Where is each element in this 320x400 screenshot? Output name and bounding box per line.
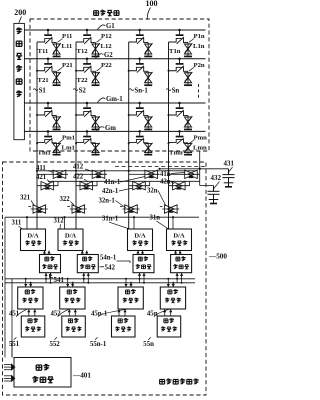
TFT Tm1 and LC element: [37, 130, 61, 155]
svg-text:55n-1: 55n-1: [90, 341, 107, 348]
TFT T11 and LC element: [37, 29, 61, 58]
data bus A: [5, 278, 195, 280]
node on control bus: [172, 216, 174, 218]
D/A converter 311: [21, 229, 46, 251]
svg-text:41n-1: 41n-1: [104, 179, 121, 186]
svg-text:451: 451: [9, 311, 20, 318]
svg-text:D/A: D/A: [134, 233, 146, 240]
svg-text:D/A: D/A: [27, 233, 39, 240]
wire junction: [36, 70, 38, 72]
source line label S2: [73, 87, 86, 94]
analog switch 411: [36, 170, 68, 179]
svg-text:Lmn: Lmn: [193, 145, 207, 152]
TFT T12 and LC element: [76, 29, 100, 58]
svg-text:541: 541: [54, 276, 65, 284]
svg-text:32n-1: 32n-1: [99, 197, 116, 204]
wire junction: [75, 70, 77, 72]
svg-text:542: 542: [105, 264, 116, 272]
left vertical to timing box: [11, 340, 13, 358]
timing controller 401: [14, 358, 71, 388]
label 200: [14, 8, 26, 23]
data latch 45n: [160, 287, 185, 309]
label 41n: [160, 171, 185, 178]
svg-text:45n: 45n: [147, 311, 158, 318]
svg-text:322: 322: [60, 196, 71, 203]
analog switch 421: [37, 181, 58, 190]
capacitor 432: [208, 186, 220, 204]
label 321: [20, 195, 34, 205]
wires latch2 to latch1: [119, 309, 125, 316]
svg-text:100: 100: [146, 0, 158, 8]
panel title 液晶面板: [94, 10, 119, 16]
data latch 452: [60, 287, 85, 309]
node on control bus: [133, 216, 135, 218]
svg-text:—401: —401: [72, 372, 91, 380]
switch controller box 2: [77, 255, 98, 273]
svg-text:P12: P12: [101, 33, 112, 40]
D/A converter 312: [58, 229, 83, 251]
TFT Tmn and LC element: [169, 130, 193, 155]
svg-text:T21: T21: [38, 77, 49, 84]
label 451: [9, 309, 27, 317]
svg-text:42n: 42n: [160, 179, 171, 186]
label 500: [208, 253, 227, 261]
svg-text:S1: S1: [39, 87, 47, 94]
label 45n: [147, 309, 169, 317]
gate line row 3: [24, 102, 205, 104]
data latch 451: [18, 287, 43, 309]
switch controller box 3: [133, 255, 154, 273]
node on control bus: [26, 216, 28, 218]
wires latch2 to latch1: [29, 309, 35, 316]
svg-text:431: 431: [224, 160, 235, 168]
precharge bus 1: [37, 170, 197, 172]
data latch 551: [21, 316, 45, 337]
svg-text:T22: T22: [77, 77, 89, 84]
wires bus to latch: [126, 279, 131, 287]
capacitor 431: [223, 169, 235, 187]
svg-text:Tmn: Tmn: [169, 150, 183, 157]
Vcom line: [199, 151, 201, 186]
analog switch 32n: [160, 205, 180, 213]
svg-text:321: 321: [20, 195, 31, 202]
svg-text:552: 552: [50, 341, 61, 348]
svg-text:41n: 41n: [160, 171, 171, 178]
wires bus to controller: [46, 273, 51, 283]
data latch 552: [62, 316, 86, 337]
wires controller to D/A: [82, 251, 87, 255]
TFT T21 and LC element: [37, 58, 61, 87]
TFT cell r1c3 and LC element: [129, 29, 153, 58]
wire junction: [128, 70, 130, 72]
svg-text:—500: —500: [208, 253, 227, 261]
wire junction: [128, 114, 130, 116]
svg-text:T12: T12: [77, 48, 89, 55]
wire junction: [168, 142, 170, 144]
svg-text:P22: P22: [101, 62, 112, 69]
wire junction: [168, 70, 170, 72]
label P12: [97, 33, 113, 42]
label 422: [73, 173, 88, 182]
wire junction: [75, 142, 77, 144]
svg-text:P11: P11: [62, 33, 72, 40]
label P22: [97, 62, 113, 71]
label 551: [9, 337, 20, 348]
source line label Sn: [166, 87, 179, 94]
label 452: [51, 309, 69, 317]
control line bus: [5, 216, 199, 218]
svg-text:311: 311: [12, 220, 22, 227]
label 542: [100, 264, 116, 272]
node: [158, 168, 160, 170]
precharge bus 2: [48, 180, 200, 182]
svg-text:Gm: Gm: [105, 125, 116, 132]
switch controller box 1: [40, 255, 61, 273]
svg-text:452: 452: [51, 311, 62, 318]
svg-text:411: 411: [36, 165, 46, 172]
svg-text:L1n: L1n: [193, 43, 205, 50]
svg-text:P2n: P2n: [194, 62, 205, 69]
label 32n-1: [99, 197, 127, 208]
wires bus to controller: [84, 273, 89, 283]
analog switch 422: [76, 181, 97, 190]
analog switch 32n-1: [120, 205, 140, 213]
label 311: [12, 220, 23, 229]
svg-text:45n-1: 45n-1: [91, 311, 108, 318]
svg-text:432: 432: [211, 174, 222, 182]
analog switch 41n: [167, 170, 199, 179]
label 54n-1: [100, 255, 130, 263]
label 312: [54, 218, 65, 229]
TFT cell r3c2 and LC element: [76, 102, 100, 131]
TFT cell r2c3 and LC element: [129, 58, 153, 87]
svg-text:42n-1: 42n-1: [102, 188, 119, 195]
analog switch 321: [28, 205, 48, 213]
label 401: [72, 372, 91, 380]
svg-text:200: 200: [14, 8, 26, 17]
TFT cell r3c1 and LC element: [37, 102, 61, 131]
label 55n: [143, 337, 154, 348]
wires controller to D/A: [138, 251, 143, 255]
svg-text:G1: G1: [106, 23, 115, 30]
svg-text:31n-1: 31n-1: [102, 216, 119, 223]
analog switch 412: [75, 170, 107, 179]
label 42n-1: [102, 188, 133, 195]
wires bus to controller: [140, 273, 145, 283]
wire junction: [75, 114, 77, 116]
data latch 55n: [157, 316, 181, 337]
svg-text:D/A: D/A: [173, 233, 185, 240]
source line label Sn-1: [129, 87, 148, 94]
label 421: [36, 174, 50, 183]
svg-text:S2: S2: [79, 87, 87, 94]
svg-text:L12: L12: [101, 43, 113, 50]
gate line label G1: [98, 23, 116, 30]
left control verticals: [4, 217, 6, 357]
D/A converter 31n-1: [128, 229, 153, 251]
svg-text:Lm1: Lm1: [62, 145, 75, 152]
input data arrows: [4, 365, 11, 370]
label 55n-1: [90, 337, 107, 348]
inner dashed line (right): [115, 166, 206, 168]
label 31n: [150, 215, 169, 229]
label 42n: [160, 179, 174, 186]
svg-text:31n: 31n: [150, 215, 161, 222]
TFT cell r3c3 and LC element: [129, 102, 153, 131]
wire junction: [128, 142, 130, 144]
svg-text:32n: 32n: [147, 188, 158, 195]
data latch 45n-1: [118, 287, 143, 309]
svg-text:L11: L11: [62, 43, 73, 50]
wires controller to D/A: [176, 251, 181, 255]
label 31n-1: [102, 216, 130, 229]
gate line row 4: [24, 130, 205, 132]
wires bus to latch: [26, 279, 31, 287]
svg-text:421: 421: [36, 174, 47, 181]
wires bus to controller: [177, 273, 182, 283]
svg-text:412: 412: [73, 163, 84, 170]
label 32n: [147, 188, 166, 207]
switch controller box 4: [171, 255, 192, 273]
source driver 500 dashed outline: [3, 162, 207, 395]
D/A converter 31n: [167, 229, 192, 251]
svg-text:54n-1: 54n-1: [100, 255, 117, 262]
source line column 3: [128, 42, 130, 229]
wire to capacitor 431: [160, 168, 229, 170]
LCD panel 100 dashed outline: [30, 19, 209, 151]
wire junction: [36, 142, 38, 144]
label P11: [58, 33, 73, 42]
wires bus to latch: [68, 279, 73, 287]
gate line label G2: [96, 52, 114, 59]
wire to capacitor 432: [200, 185, 214, 187]
data bus B: [5, 282, 195, 284]
svg-text:551: 551: [9, 341, 20, 348]
source line column 1: [36, 42, 38, 229]
gate line label Gm: [97, 125, 117, 132]
TFT cell r3c4 and LC element: [169, 102, 193, 131]
svg-text:422: 422: [73, 173, 84, 180]
node on Vcom line: [199, 168, 201, 170]
wire junction: [168, 114, 170, 116]
label 100: [146, 0, 158, 18]
svg-text:T11: T11: [38, 48, 49, 55]
wires latch2 to latch1: [165, 309, 171, 316]
TFT T1n and LC element: [169, 29, 193, 58]
label 41n-1: [104, 177, 145, 187]
label 412: [73, 163, 93, 171]
svg-text:312: 312: [54, 218, 65, 225]
label 552: [50, 337, 61, 348]
wire junction: [36, 114, 38, 116]
svg-text:Pmn: Pmn: [194, 134, 208, 141]
svg-text:D/A: D/A: [65, 233, 77, 240]
wires bus to latch: [168, 279, 173, 287]
svg-text:P21: P21: [62, 62, 73, 69]
source line column 4: [168, 42, 170, 229]
source line column 2: [75, 42, 77, 229]
source line label S1: [33, 87, 46, 94]
svg-text:55n: 55n: [143, 341, 154, 348]
label Pm1: [58, 134, 76, 143]
gate line row 1: [24, 29, 205, 31]
TFT cell r2c4 and LC element: [169, 58, 193, 87]
svg-text:Sn-1: Sn-1: [134, 87, 148, 94]
input data arrows: [4, 376, 11, 381]
analog switch 42n: [169, 181, 190, 190]
svg-text:P1n: P1n: [194, 33, 205, 40]
data latch 55n-1: [112, 316, 136, 337]
svg-text:G2: G2: [104, 52, 113, 59]
svg-text:Pm1: Pm1: [62, 134, 75, 141]
label 45n-1: [91, 309, 127, 317]
svg-text:T1n: T1n: [169, 48, 181, 55]
gate line row 2: [24, 58, 205, 60]
analog switch 41n-1: [128, 170, 160, 179]
label 322: [60, 196, 75, 205]
analog switch 322: [67, 205, 87, 213]
analog switch 42n-1: [129, 181, 150, 190]
TFT T22 and LC element: [76, 58, 100, 87]
wires controller to D/A: [45, 251, 50, 255]
label P2n: [189, 62, 205, 71]
svg-text:Gm-1: Gm-1: [106, 96, 123, 103]
gate line label Gm-1: [98, 96, 124, 103]
label Pmn: [189, 134, 207, 143]
node on control bus: [63, 216, 65, 218]
gate driver 200 box: [14, 23, 25, 139]
label P1n: [189, 33, 205, 42]
wires latch2 to latch1: [69, 309, 75, 316]
ellipsis dashed mark right of panel columns: [198, 84, 200, 98]
label P21: [58, 62, 73, 71]
label 541: [50, 274, 65, 284]
label 411: [36, 165, 54, 173]
TFT cell r4c2 and LC element: [76, 130, 100, 155]
svg-text:Sn: Sn: [172, 87, 180, 94]
gate driver vertical text 栅极驱动电路: [16, 28, 22, 97]
svg-text:Tm1: Tm1: [38, 150, 51, 157]
TFT cell r4c3 and LC element: [129, 130, 153, 155]
driver caption 源极驱动电路: [160, 379, 199, 385]
